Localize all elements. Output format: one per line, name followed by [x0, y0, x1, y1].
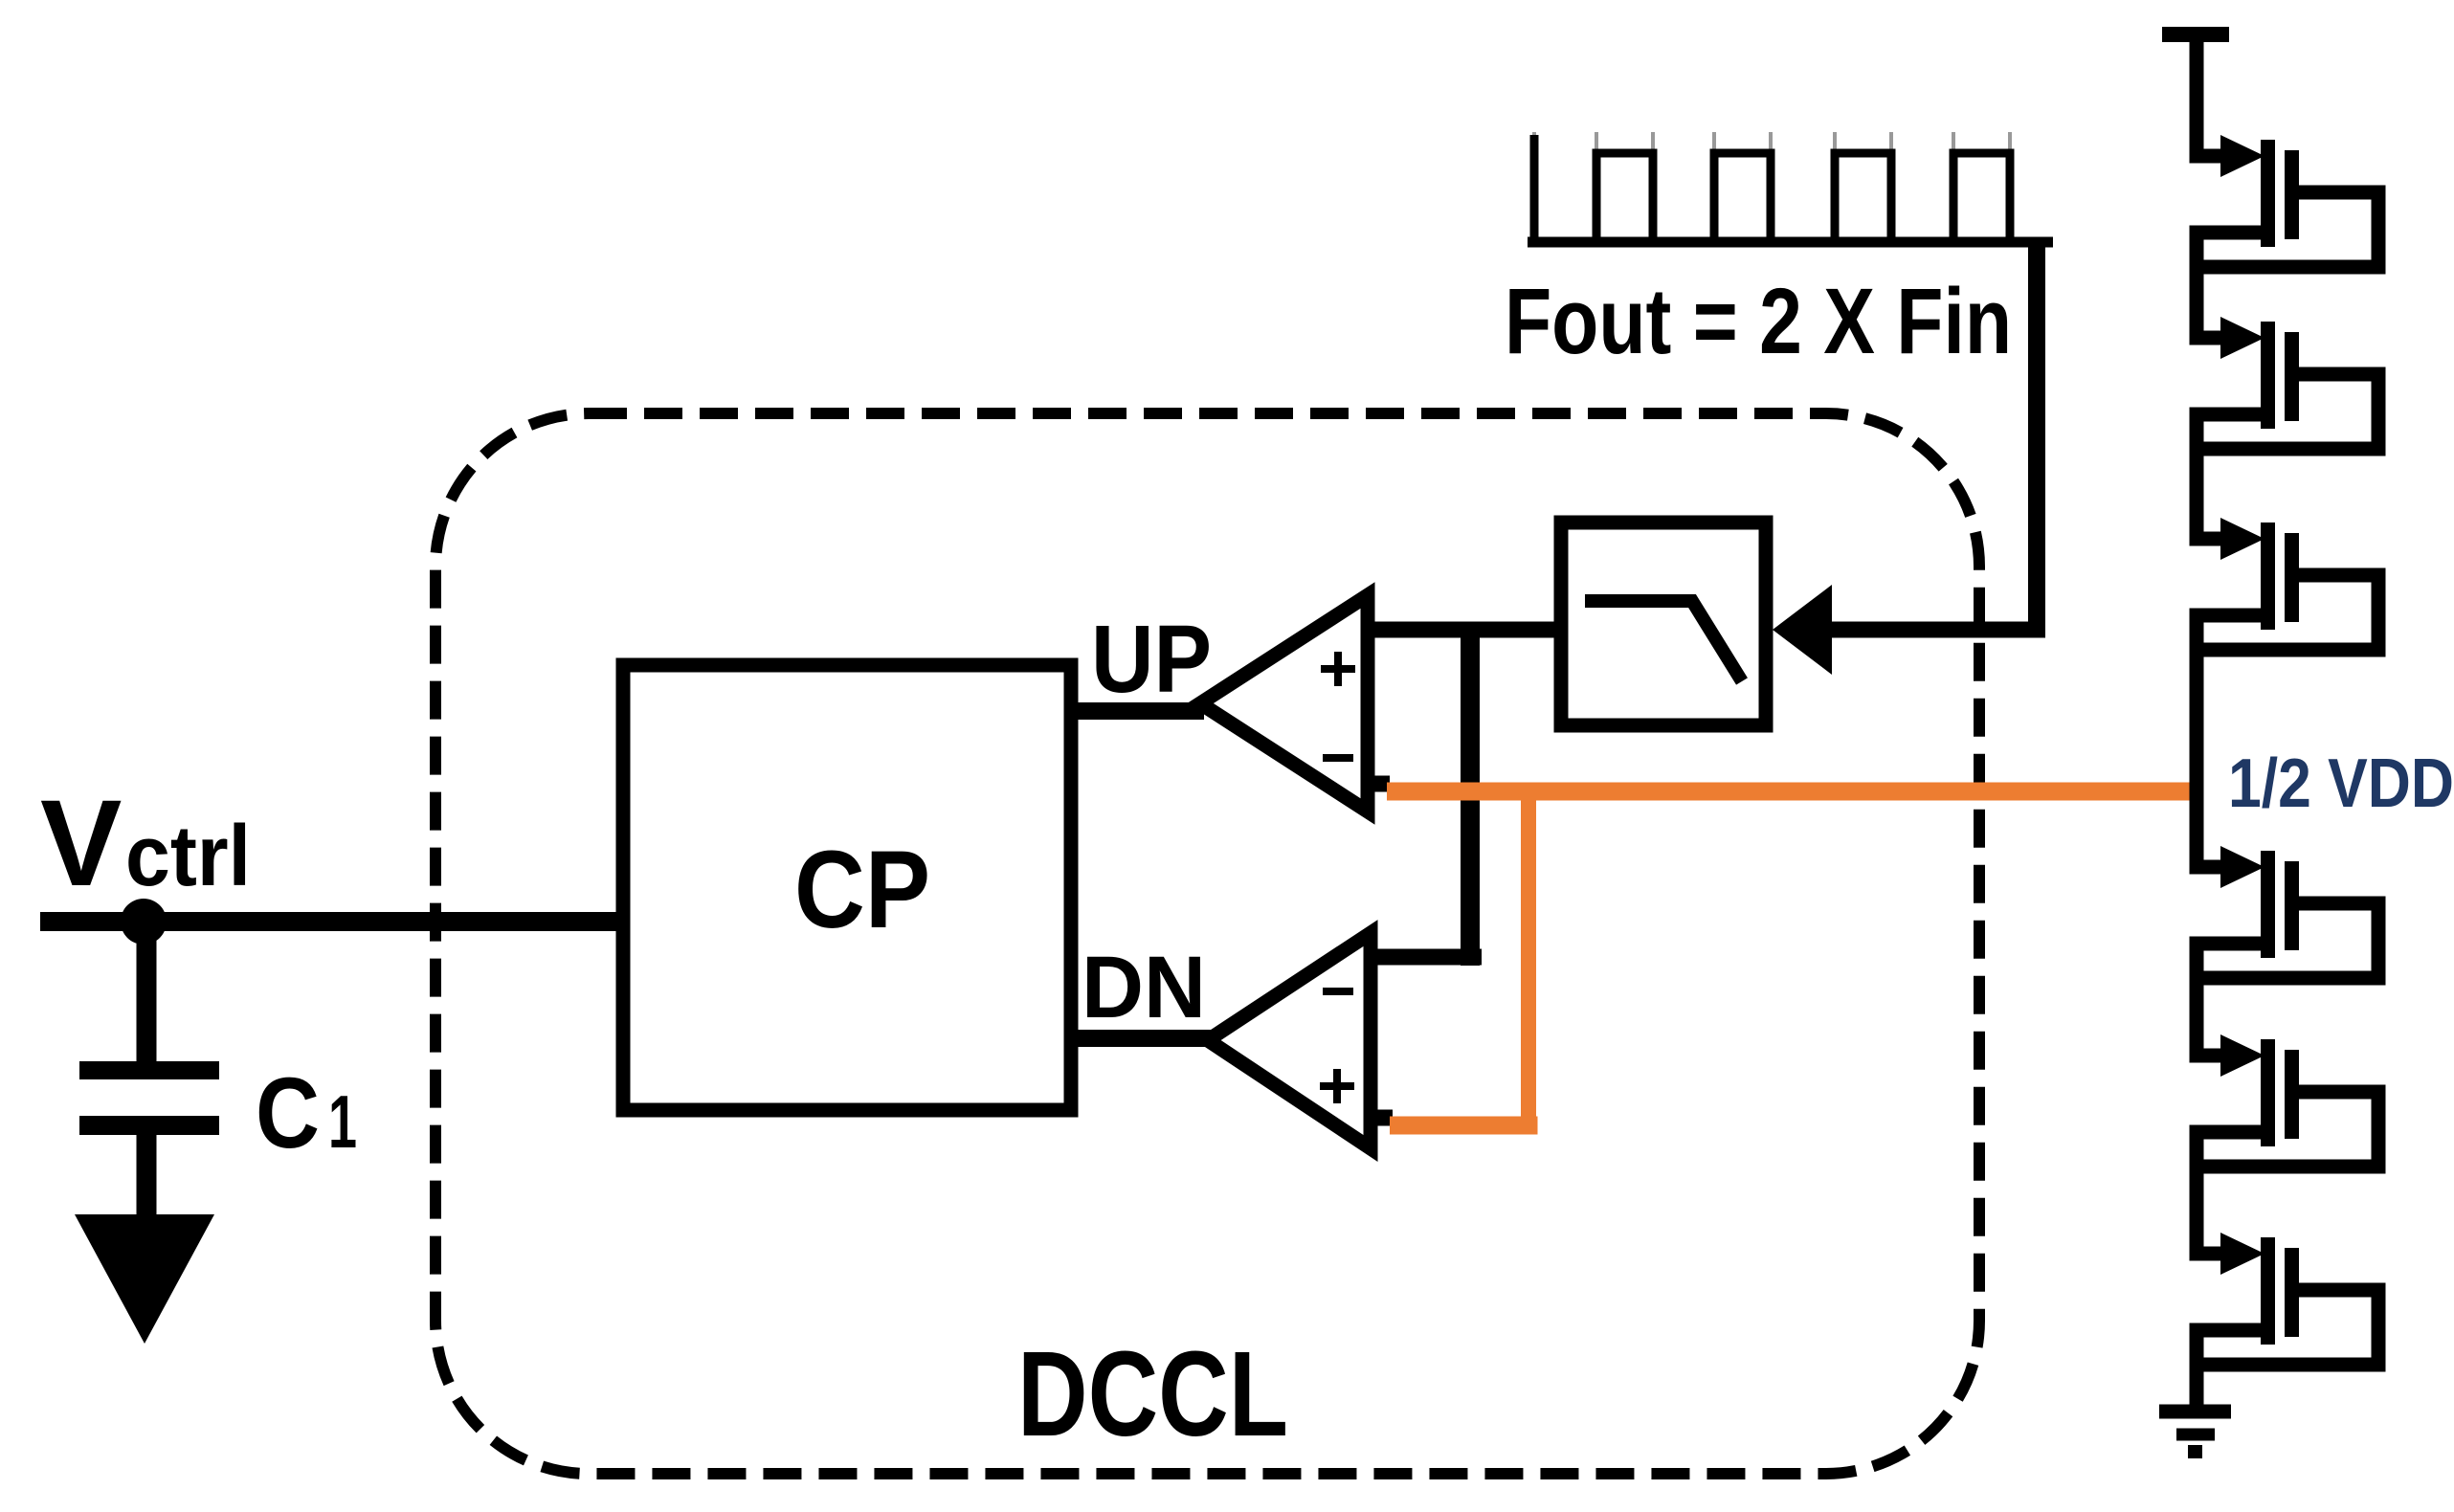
svg-text:Fout = 2 X Fin: Fout = 2 X Fin: [1505, 269, 2012, 373]
comparator U2 (DN): [1208, 933, 1371, 1148]
transistor M2 (diode-connected NMOS): [2190, 317, 2386, 449]
Fout waveform ticks: [1532, 132, 1536, 150]
VDD supply bar: [2162, 27, 2229, 42]
low-pass filter box: [1561, 523, 1766, 725]
low-pass response symbol: [1585, 601, 1742, 681]
svg-text:DN: DN: [1082, 939, 1206, 1036]
wire rail segment above M4: [2190, 609, 2204, 875]
wire to U2 - input: [1369, 949, 1482, 966]
DCCL block boundary (dashed): [435, 413, 1979, 1474]
wire Vctrl: [40, 912, 623, 931]
pin stub U2 +: [1371, 1110, 1393, 1126]
wire C1 top lead: [137, 922, 157, 1070]
net 1/2 VDD (orange) to U2 + input: [1390, 1117, 1538, 1135]
ground (arrow below C1): [75, 1214, 214, 1344]
wire rail segment above M3: [2190, 408, 2204, 546]
transistor M1 (diode-connected NMOS): [2190, 135, 2386, 267]
svg-text:1/2 VDD: 1/2 VDD: [2228, 745, 2454, 822]
wire Fout vertical: [2028, 247, 2045, 637]
wire rail segment above M1: [2190, 27, 2204, 164]
ground (divider bottom): [2159, 1412, 2231, 1452]
pin + (U1): [1321, 665, 1355, 673]
transistor M3 (diode-connected NMOS): [2190, 518, 2386, 650]
Fout waveform: [1528, 237, 2053, 248]
pin + (U2): [1320, 1082, 1354, 1090]
pin - (U1): [1323, 754, 1353, 762]
charge pump CP: [623, 665, 1071, 1110]
svg-text:C: C: [256, 1057, 320, 1169]
wire rail segment above M6: [2190, 1125, 2204, 1261]
transistor M5 (diode-connected NMOS): [2190, 1034, 2386, 1167]
wire rail to ground: [2190, 1323, 2204, 1419]
svg-text:ctrl: ctrl: [125, 809, 251, 904]
wire Fout horizontal: [1824, 622, 2045, 638]
transistor M6 (diode-connected NMOS): [2190, 1233, 2386, 1365]
svg-text:CP: CP: [794, 829, 930, 951]
svg-text:1: 1: [328, 1079, 357, 1164]
wire branch down to U2 - input: [1461, 622, 1480, 967]
pin stub U1 -: [1368, 776, 1390, 792]
pin - (U2): [1323, 988, 1353, 995]
node Vctrl (junction dot): [121, 899, 167, 945]
wire rail segment above M5: [2190, 937, 2204, 1063]
wire rail segment above M2: [2190, 226, 2204, 345]
transistor M4 (diode-connected NMOS): [2190, 846, 2386, 978]
comparator U1 (UP): [1200, 595, 1368, 812]
wire U1 + input to filter output: [1368, 622, 1572, 638]
capacitor C1: [79, 1061, 219, 1079]
net 1/2 VDD (orange) vertical branch: [1521, 783, 1536, 1125]
arrowhead into filter: [1773, 585, 1832, 675]
wire C1 bottom lead: [137, 1125, 157, 1225]
wire DN (CP to comparator): [1071, 1030, 1212, 1047]
svg-text:UP: UP: [1091, 606, 1212, 713]
net 1/2 VDD (orange) horizontal: [1387, 783, 2197, 801]
wire UP (CP to comparator): [1071, 702, 1204, 720]
svg-text:DCCL: DCCL: [1017, 1326, 1288, 1461]
svg-text:V: V: [40, 775, 122, 912]
